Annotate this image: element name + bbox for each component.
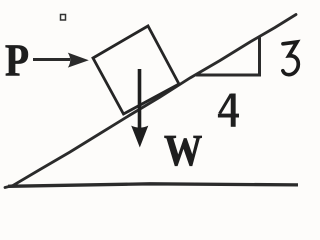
svg-text:P: P xyxy=(5,36,29,86)
svg-text:W: W xyxy=(164,126,202,175)
